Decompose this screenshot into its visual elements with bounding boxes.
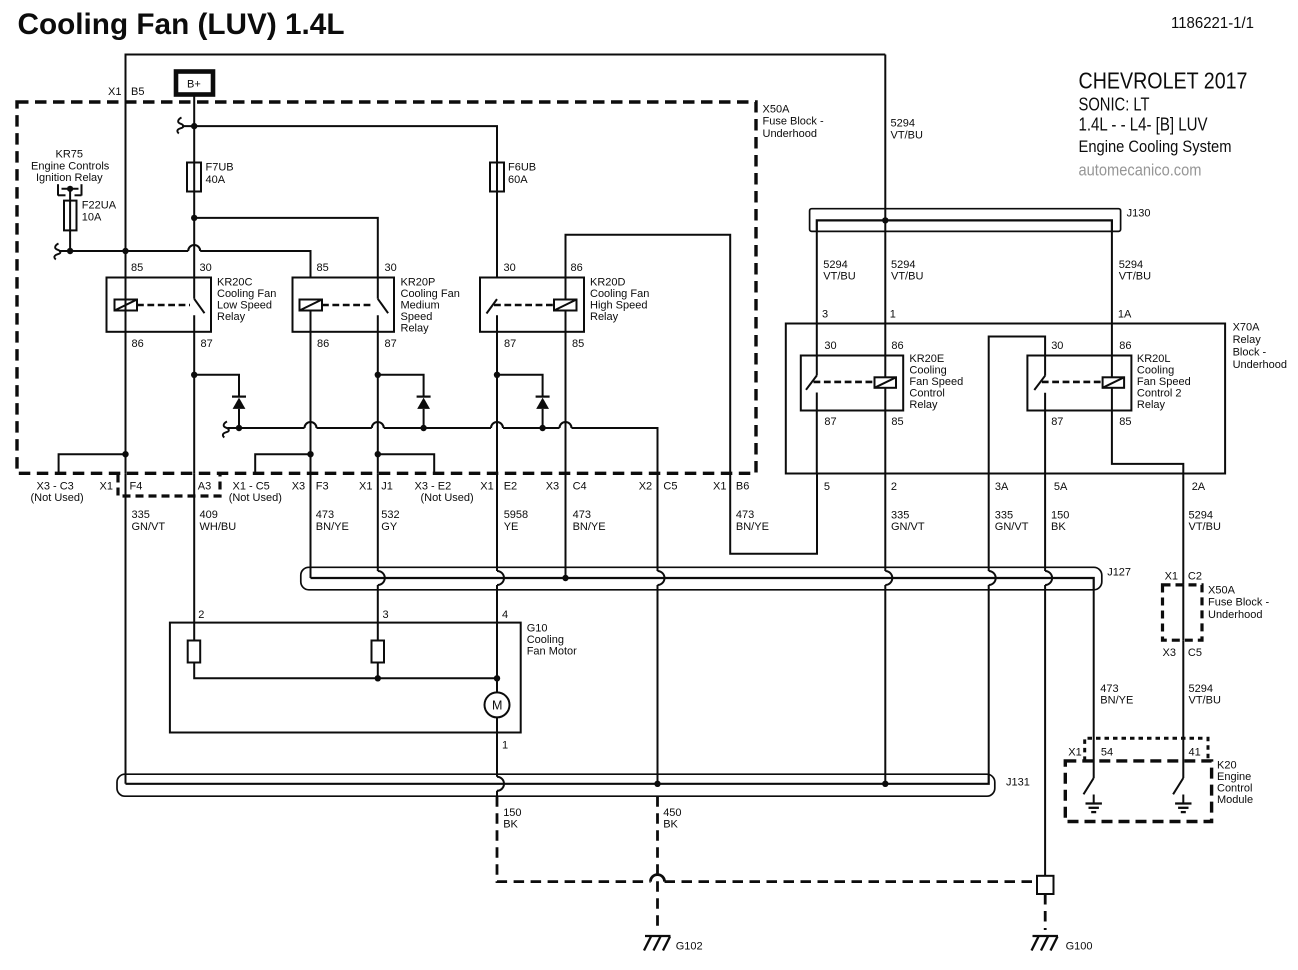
svg-text:Fan Motor: Fan Motor [527, 646, 577, 658]
svg-text:2: 2 [891, 481, 897, 493]
svg-text:1: 1 [890, 309, 896, 321]
wire: elbow to diode 1 [194, 375, 239, 397]
svg-text:87: 87 [201, 338, 213, 350]
svg-text:1A: 1A [1118, 309, 1132, 321]
relay KR20E switch blade [806, 376, 817, 390]
svg-text:KR20E: KR20E [909, 353, 944, 365]
connector labels X3 C5 [1163, 647, 1202, 659]
svg-text:G100: G100 [1066, 941, 1093, 953]
svg-text:KR20C: KR20C [217, 277, 253, 289]
svg-text:A3: A3 [198, 480, 211, 492]
svg-text:85: 85 [1119, 416, 1131, 428]
wire: top B+ feed bus from left edge to right drop [126, 55, 886, 252]
ECM connector X1 dotted strip [1085, 738, 1208, 761]
svg-text:BN/YE: BN/YE [573, 521, 606, 533]
wire: dashed 150 BK motor ground run to G100 stud [497, 796, 1037, 881]
wire: dashed stud to G100 [1044, 894, 1047, 930]
svg-text:B5: B5 [131, 86, 144, 98]
svg-text:532: 532 [381, 509, 399, 521]
node: 450 BK origin dot on J131 [654, 781, 660, 787]
relay KR20L coil [1103, 377, 1125, 388]
svg-text:3A: 3A [995, 481, 1009, 493]
wire label 5958 YE (E2) [504, 509, 528, 533]
wire label 150 BK (pin 5A) [1051, 510, 1069, 534]
svg-text:1.4L - - L4- [B] LUV: 1.4L - - L4- [B] LUV [1079, 114, 1209, 135]
svg-text:(Not Used): (Not Used) [31, 492, 84, 504]
wire: KR75 to F22UA [69, 189, 71, 201]
svg-text:87: 87 [824, 416, 836, 428]
svg-text:335: 335 [132, 509, 150, 521]
svg-text:Relay: Relay [1233, 334, 1262, 346]
svg-text:B+: B+ [187, 79, 201, 91]
svg-text:KR20L: KR20L [1137, 353, 1171, 365]
ground G100 [1032, 936, 1093, 953]
wire: KR20C 30 feed [193, 218, 195, 299]
wire: J1 532 GY down to motor pin 3 [378, 473, 385, 640]
svg-text:(Not Used): (Not Used) [421, 492, 474, 504]
node: X3-C3 elbow dot [122, 451, 128, 457]
wire: C4 473 BN/YE down to J127 bar dot [565, 473, 567, 578]
node: X3-E2 elbow dot [375, 451, 381, 457]
svg-text:VT/BU: VT/BU [1189, 695, 1221, 707]
wire: J127 bar down to ECM pin 54 [1093, 590, 1095, 778]
svg-text:Underhood: Underhood [1208, 609, 1262, 621]
label K20 Engine Control Module [1217, 760, 1253, 807]
relay KR20D coil-switch dashed link [494, 304, 554, 307]
relay KR20D coil [554, 300, 577, 311]
label X70A Relay Block - Underhood [1233, 322, 1287, 372]
wire: left main line KR20C 85-86 through coil to F4 exit [125, 251, 127, 473]
ground stud square at G100 [1037, 876, 1054, 894]
wire: KR20P 87 down to J1 exit [377, 315, 379, 473]
wire: F4 335 GN/VT down to J131 bar [125, 473, 127, 784]
label G10 Cooling Fan Motor [527, 623, 577, 658]
connector X1 dashed notch on fuse block [118, 475, 220, 497]
svg-text:1186221-1/1: 1186221-1/1 [1171, 15, 1254, 32]
node: C4 wire on J127 bar dot [562, 575, 568, 581]
motor pin labels 2 3 4 [198, 609, 508, 621]
relay KR20P coil-switch dashed link [322, 304, 374, 307]
svg-text:450: 450 [663, 807, 681, 819]
label KR20C Cooling Fan Low Speed Relay [217, 277, 276, 324]
svg-text:KR20D: KR20D [590, 277, 626, 289]
svg-text:E2: E2 [504, 480, 517, 492]
labels X1 - C5 (Not Used) [229, 480, 282, 504]
svg-text:automecanico.com: automecanico.com [1079, 161, 1202, 180]
svg-text:J1: J1 [381, 480, 393, 492]
connector pin labels X1 54 41 [1068, 747, 1200, 759]
svg-text:41: 41 [1189, 747, 1201, 759]
splice pack J127 body [301, 567, 1102, 590]
node: X1-C5 elbow dot [307, 451, 313, 457]
fuse block X50A pass-through dashed box [1163, 585, 1203, 640]
wire: KR20D 86 elbow from B6 line [566, 235, 731, 473]
node: KR20P 87 diode tap dot [375, 372, 381, 378]
wire: B+ box down to junction [193, 95, 195, 163]
svg-text:YE: YE [504, 521, 519, 533]
diode CR1 (KR20C suppression) [232, 397, 246, 428]
svg-text:C5: C5 [663, 480, 677, 492]
svg-text:473: 473 [1100, 683, 1118, 695]
node: B+ junction dot [191, 123, 197, 129]
label KR20D Cooling Fan High Speed Relay [590, 277, 649, 324]
ECM internal ground pin 41 [1175, 795, 1191, 813]
labels X3 F3 [292, 480, 329, 492]
svg-text:Fan Speed: Fan Speed [909, 376, 963, 388]
svg-text:Engine: Engine [1217, 771, 1251, 783]
relay KR20P box [293, 278, 395, 332]
relay KR20E box [801, 356, 903, 411]
svg-text:VT/BU: VT/BU [823, 271, 855, 283]
svg-text:Fuse Block -: Fuse Block - [1208, 597, 1269, 609]
node: KR20D 87 diode tap dot [494, 372, 500, 378]
svg-text:M: M [492, 699, 502, 713]
svg-text:Engine Cooling System: Engine Cooling System [1079, 137, 1232, 156]
wire label 5294 VT/BU (pin 1) [891, 259, 923, 283]
svg-text:X2: X2 [639, 480, 652, 492]
svg-text:VT/BU: VT/BU [891, 271, 923, 283]
labels X2 C5 [639, 480, 678, 492]
wire label 5294 VT/BU (pin 1A) [1119, 259, 1151, 283]
svg-text:5294: 5294 [891, 118, 915, 130]
wire: X3-C3 not-used elbow [59, 454, 126, 473]
label KR20L Cooling Fan Speed Control 2 Relay [1137, 353, 1191, 411]
svg-text:85: 85 [317, 262, 329, 274]
svg-text:5958: 5958 [504, 509, 528, 521]
svg-text:Medium: Medium [401, 300, 440, 312]
relay KR20E coil-switch dashed link [814, 381, 875, 384]
svg-text:3: 3 [822, 309, 828, 321]
svg-text:Engine Controls: Engine Controls [31, 160, 110, 172]
svg-text:5294: 5294 [823, 259, 847, 271]
wire: KR20P 86 down to F3 exit [310, 311, 312, 474]
fuse F22UA 10A [64, 200, 117, 252]
wire label 473 BN/YE (pin 54) [1100, 683, 1133, 707]
svg-text:54: 54 [1101, 747, 1113, 759]
svg-text:86: 86 [317, 338, 329, 350]
svg-text:30: 30 [504, 262, 516, 274]
svg-text:GN/VT: GN/VT [891, 521, 925, 533]
svg-text:X1: X1 [108, 86, 121, 98]
svg-text:Relay: Relay [909, 399, 938, 411]
wire-continues curl at B+ junction [177, 118, 183, 134]
svg-text:30: 30 [385, 262, 397, 274]
svg-text:WH/BU: WH/BU [200, 521, 237, 533]
svg-text:G102: G102 [676, 941, 703, 953]
svg-text:X3: X3 [1163, 647, 1176, 659]
wire label 5294 VT/BU (pin 41) [1189, 683, 1221, 707]
node: motor internal dot pin3 [375, 675, 381, 681]
svg-text:Control: Control [909, 388, 944, 400]
svg-text:CHEVROLET 2017: CHEVROLET 2017 [1079, 68, 1248, 94]
relay KR20E pin labels 30 86 87 85 [824, 340, 903, 428]
wire label 335 GN/VT (pin 2) [891, 510, 925, 534]
wire: dashed 450 BK down to G102 [656, 796, 659, 930]
svg-text:X1: X1 [100, 480, 113, 492]
svg-text:150: 150 [1051, 510, 1069, 522]
labels X1 E2 [480, 480, 517, 492]
svg-text:B6: B6 [736, 480, 749, 492]
svg-text:C2: C2 [1188, 571, 1202, 583]
svg-text:5294: 5294 [1189, 510, 1213, 522]
splice pack J127 internal bus bar [311, 578, 1094, 590]
svg-text:30: 30 [200, 262, 212, 274]
wire: C2 to C5 through fuse block [1182, 585, 1184, 640]
node: ignition feed to KR20C 85 dot [122, 248, 128, 254]
svg-text:2: 2 [198, 609, 204, 621]
svg-text:87: 87 [385, 338, 397, 350]
node: KR20E 85 wire on J131 dot [882, 781, 888, 787]
wire: A3 409 WH/BU down to motor pin 2 [193, 473, 195, 640]
header: automecanico.com [1079, 161, 1202, 180]
label X50A Fuse Block - Underhood (right) [1208, 585, 1269, 621]
wire: KR20E 87 down to pin 5 [816, 393, 818, 474]
svg-text:X1: X1 [359, 480, 372, 492]
svg-text:G10: G10 [527, 623, 548, 635]
connector labels X1 C2 [1165, 571, 1202, 583]
svg-text:30: 30 [1051, 340, 1063, 352]
relay KR20C coil-switch dashed link [137, 304, 190, 307]
svg-text:Cooling Fan: Cooling Fan [401, 288, 460, 300]
svg-text:GN/VT: GN/VT [995, 521, 1029, 533]
wire label 532 GY (J1) [381, 509, 399, 533]
wire label 5294 VT/BU (pin 3) [823, 259, 855, 283]
labels X3 C4 [546, 480, 587, 492]
labels X1 J1 [359, 480, 393, 492]
header: SONIC: LT [1079, 94, 1150, 115]
label J130 [1127, 208, 1151, 220]
wire: KR20C 87 down to A3 exit [193, 315, 195, 473]
wire: X1-C5 not-used elbow [255, 454, 310, 473]
svg-text:C5: C5 [1188, 647, 1202, 659]
relay KR20L switch blade [1034, 376, 1045, 390]
node: feed dot on J130 bar [882, 217, 888, 223]
svg-text:X1: X1 [1068, 747, 1081, 759]
svg-text:BK: BK [663, 819, 678, 831]
svg-text:86: 86 [891, 340, 903, 352]
wire: ignition feed line to KR20C 85 and KR20P 85 [59, 245, 311, 277]
wire: elbow to diode 3 [497, 375, 543, 397]
relay KR20C box [107, 278, 212, 332]
svg-text:X1 - C5: X1 - C5 [233, 480, 270, 492]
connector labels X1 B5 [108, 86, 144, 98]
fuse F7UB 40A [187, 162, 234, 218]
relay KR20L pin labels 30 86 87 85 [1051, 340, 1131, 428]
wire: KR20D 85 down to C4 exit [565, 311, 567, 474]
relay KR20L coil-switch dashed link [1042, 381, 1103, 384]
svg-text:335: 335 [995, 510, 1013, 522]
svg-text:Cooling Fan (LUV) 1.4L: Cooling Fan (LUV) 1.4L [18, 8, 345, 41]
svg-text:Relay: Relay [1137, 399, 1166, 411]
svg-text:60A: 60A [508, 174, 528, 186]
labels X3 - E2 (Not Used) [415, 480, 474, 504]
wire: J130 to KR20E 86 coil (pin 1) [884, 220, 886, 377]
svg-text:Relay: Relay [217, 311, 246, 323]
wire: diode bus to X2-C5 exit with hops [228, 422, 658, 473]
svg-text:Relay: Relay [401, 323, 430, 335]
relay block X70A box [786, 324, 1225, 474]
node: F22UA output dot [67, 248, 73, 254]
svg-text:473: 473 [316, 509, 334, 521]
svg-text:473: 473 [736, 509, 754, 521]
svg-text:X70A: X70A [1233, 322, 1261, 334]
wire-continues curl at ignition feed [54, 244, 60, 260]
header: CHEVROLET 2017 [1079, 68, 1248, 94]
wire label 450 BK [663, 807, 681, 831]
relay KR75 contact symbol [58, 184, 82, 195]
wire label 409 WH/BU (A3) [200, 509, 237, 533]
header: 1.4L - - L4- [B] LUV [1079, 114, 1209, 135]
svg-text:J131: J131 [1006, 777, 1030, 789]
svg-text:Low Speed: Low Speed [217, 300, 272, 312]
wire label 335 GN/VT (pin 3A) [995, 510, 1029, 534]
wire-continues curl at diode bus left end [223, 422, 229, 438]
svg-text:Fuse Block -: Fuse Block - [763, 116, 824, 128]
pin labels 3 1 1A [822, 309, 1132, 321]
svg-text:BN/YE: BN/YE [316, 521, 349, 533]
svg-text:X3: X3 [292, 480, 305, 492]
svg-text:150: 150 [503, 807, 521, 819]
svg-text:X3: X3 [546, 480, 559, 492]
wire: F7UB output to KR20P 30 [194, 218, 378, 299]
relay KR20C coil [115, 300, 138, 311]
node: F7UB output dot [191, 215, 197, 221]
svg-text:335: 335 [891, 510, 909, 522]
relay KR20D switch blade [487, 299, 498, 313]
wire: C5 down to ECM pin 41 [1182, 640, 1184, 778]
wire: motor pin 1 down through J131 hop [497, 717, 508, 796]
svg-text:K20: K20 [1217, 760, 1237, 772]
svg-text:F3: F3 [316, 480, 329, 492]
svg-text:Speed: Speed [401, 311, 433, 323]
ECM driver switch blade pin 54 [1084, 778, 1094, 794]
svg-text:5294: 5294 [1119, 259, 1143, 271]
svg-text:KR20P: KR20P [401, 277, 436, 289]
wire: B+ junction to F6UB feed [182, 126, 497, 162]
wire: X3-E2 not-used elbow [378, 454, 434, 473]
header: Engine Cooling System [1079, 137, 1232, 156]
wire: pin 3A down to J131 bar with J127 hop [989, 474, 996, 775]
svg-text:X1: X1 [713, 480, 726, 492]
splice pack J131 internal bus bar [126, 774, 989, 784]
svg-text:87: 87 [504, 338, 516, 350]
svg-text:BK: BK [1051, 521, 1066, 533]
svg-text:GN/VT: GN/VT [132, 521, 166, 533]
svg-text:J130: J130 [1127, 208, 1151, 220]
label 5294 VT/BU (top right feed) [891, 118, 923, 142]
svg-text:86: 86 [571, 262, 583, 274]
svg-text:30: 30 [824, 340, 836, 352]
svg-text:1: 1 [502, 740, 508, 752]
engine control module K20 dashed box [1065, 761, 1211, 822]
wire: KR20L 30 feed elbow from pin 3A [989, 337, 1045, 474]
svg-text:473: 473 [573, 509, 591, 521]
wire label 473 BN/YE (F3) [316, 509, 349, 533]
ECM driver switch blade pin 41 [1173, 778, 1183, 794]
svg-text:F7UB: F7UB [206, 162, 234, 174]
node: KR20C 87 diode tap dot [191, 372, 197, 378]
svg-text:86: 86 [1119, 340, 1131, 352]
svg-text:VT/BU: VT/BU [1189, 521, 1221, 533]
svg-text:F22UA: F22UA [82, 200, 117, 212]
resistor (low speed) in G10 [188, 641, 201, 663]
svg-text:40A: 40A [206, 174, 226, 186]
svg-text:85: 85 [891, 416, 903, 428]
svg-text:X3 - E2: X3 - E2 [415, 480, 452, 492]
svg-text:87: 87 [1051, 416, 1063, 428]
svg-text:BK: BK [503, 819, 518, 831]
svg-text:Cooling Fan: Cooling Fan [217, 288, 276, 300]
document number 1186221-1/1 [1171, 15, 1254, 32]
svg-text:(Not Used): (Not Used) [229, 492, 282, 504]
relay KR20P pin labels 85 30 86 87 [317, 262, 397, 350]
wire: elbow to diode 2 [378, 375, 424, 397]
wire: KR20E 85 down to pin 2 then J131 [885, 388, 892, 784]
svg-text:SONIC: LT: SONIC: LT [1079, 94, 1150, 115]
svg-text:2A: 2A [1192, 481, 1206, 493]
relay KR20D box [480, 278, 584, 332]
svg-text:Cooling: Cooling [909, 365, 946, 377]
svg-text:X1: X1 [480, 480, 493, 492]
svg-text:VT/BU: VT/BU [1119, 271, 1151, 283]
motor M symbol [485, 678, 510, 717]
svg-text:5294: 5294 [1189, 683, 1213, 695]
wire label 473 BN/YE (C4) [573, 509, 606, 533]
svg-text:X50A: X50A [763, 104, 791, 116]
labels X1 F4 [100, 480, 143, 492]
wire: C5 450 circuit down to J131 dot with J127 hop [658, 473, 665, 784]
wire: J130 to KR20L 86 coil (pin 1A) [1111, 231, 1113, 377]
svg-text:Cooling: Cooling [1137, 365, 1174, 377]
svg-text:VT/BU: VT/BU [891, 130, 923, 142]
svg-text:Fan Speed: Fan Speed [1137, 376, 1191, 388]
label J131 [1006, 777, 1030, 789]
relay KR75 labels Engine Controls Ignition Relay [31, 148, 110, 184]
motor G10 box [170, 623, 521, 733]
label X50A Fuse Block - Underhood [763, 104, 824, 140]
svg-text:X1: X1 [1165, 571, 1178, 583]
svg-text:Cooling Fan: Cooling Fan [590, 288, 649, 300]
svg-text:3: 3 [383, 609, 389, 621]
title: Cooling Fan (LUV) 1.4L [18, 8, 345, 41]
ground G102 [644, 936, 703, 953]
wire label 473 BN/YE (B6) [736, 509, 769, 533]
svg-text:5: 5 [824, 481, 830, 493]
svg-text:Control: Control [1217, 783, 1252, 795]
wire: E2 5958 YE down to motor pin 4 with J127 hop [497, 473, 504, 678]
label A3 [198, 480, 211, 492]
svg-text:Underhood: Underhood [1233, 359, 1287, 371]
relay KR20C pin labels 85 30 86 87 [131, 262, 213, 350]
svg-text:Ignition Relay: Ignition Relay [36, 172, 103, 184]
node: diode 2 on bus dot [420, 425, 426, 431]
labels X3 - C3 (Not Used) [31, 480, 84, 504]
svg-text:BN/YE: BN/YE [1100, 695, 1133, 707]
svg-text:85: 85 [572, 338, 584, 350]
svg-text:Control 2: Control 2 [1137, 388, 1182, 400]
splice pack J131 body [117, 774, 995, 796]
svg-text:X3 - C3: X3 - C3 [37, 480, 74, 492]
splice pack J130 body [810, 209, 1121, 232]
relay KR20E coil [875, 377, 897, 388]
svg-text:5294: 5294 [891, 259, 915, 271]
svg-text:85: 85 [131, 262, 143, 274]
svg-text:GY: GY [381, 521, 398, 533]
label J127 [1107, 567, 1131, 579]
svg-text:Block -: Block - [1233, 347, 1267, 359]
relay KR20P coil [300, 300, 323, 311]
relay KR20D pin labels 30 86 87 85 [504, 262, 585, 350]
